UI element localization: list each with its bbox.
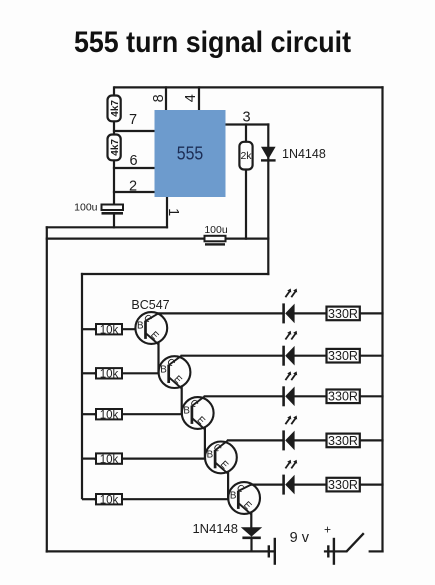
wire R13 to positive rail (359, 484, 384, 486)
wire Q4 collector to LED4 (227, 439, 285, 441)
svg-text:1: 1 (165, 208, 181, 216)
svg-text:100u: 100u (204, 224, 228, 236)
wire base-feed inner rail (81, 273, 83, 499)
resistor R12 330R (327, 434, 360, 448)
LED D3 (284, 289, 298, 324)
wire switch to positive rail (369, 550, 384, 552)
svg-text:7: 7 (129, 112, 137, 128)
svg-text:3: 3 (242, 109, 250, 125)
svg-text:100u: 100u (74, 202, 98, 214)
battery B1 9v cell 2 (324, 538, 335, 565)
wire left ground rail (46, 226, 48, 552)
battery B1 9v cell 1 (269, 538, 275, 565)
wire LED5 to R13 (294, 484, 327, 486)
transistor Q1 BC547 (135, 312, 167, 344)
LED D4 (284, 331, 298, 366)
diode D1 1N4148 (261, 147, 276, 161)
wire pin1 to ground (166, 196, 168, 228)
svg-text:330R: 330R (328, 307, 358, 321)
svg-text:1N4148: 1N4148 (192, 521, 238, 536)
resistor R13 330R (327, 478, 360, 492)
capacitor C2 100u (204, 224, 228, 246)
transistor Q3 BC547 (182, 396, 214, 429)
svg-text:330R: 330R (328, 434, 358, 448)
wire C2 bus left segment (46, 238, 205, 240)
diode D2 1N4148 (241, 527, 262, 552)
wire Q4 emitter to Q5 base (227, 472, 229, 499)
wire Q3 collector to LED3 (204, 395, 285, 397)
svg-text:4k7: 4k7 (110, 139, 121, 156)
resistor R1 4k7 (108, 96, 121, 122)
svg-text:330R: 330R (328, 349, 358, 363)
resistor R10 330R (327, 349, 360, 363)
svg-text:2: 2 (129, 179, 137, 195)
svg-text:555 turn signal circuit: 555 turn signal circuit (74, 26, 351, 59)
wire battery to switch (334, 550, 347, 552)
resistor R2 4k7 (108, 135, 121, 161)
svg-text:2k: 2k (240, 150, 252, 162)
wire top VCC rail (114, 86, 384, 88)
svg-text:6: 6 (129, 153, 137, 169)
wire R12 to positive rail (359, 439, 384, 441)
wire ground bus (pin1/C1) (46, 226, 168, 228)
svg-text:555: 555 (177, 144, 204, 164)
svg-text:BC547: BC547 (131, 298, 169, 312)
svg-text:330R: 330R (328, 390, 358, 404)
wire right positive rail (381, 86, 383, 552)
wire R10 to positive rail (359, 355, 384, 357)
resistor R4 10k (82, 324, 136, 336)
wire bottom negative rail to battery (46, 550, 275, 552)
wire pin3 output (225, 123, 270, 125)
svg-text:4: 4 (183, 94, 199, 102)
wire pin6 to chain (113, 167, 156, 169)
svg-text:8: 8 (151, 94, 167, 102)
resistor R3 2k (239, 142, 252, 170)
wire C2 bus right segment (226, 238, 270, 240)
wire 2k branch vertical (245, 123, 247, 239)
wire LED1 to R9 (294, 312, 327, 314)
wire R9 to positive rail (359, 312, 384, 314)
transistor Q5 BC547 (228, 482, 260, 514)
wire Q5 collector to LED5 (250, 484, 285, 486)
wire R11 to positive rail (359, 395, 384, 397)
wire Q2 emitter to Q3 base (181, 387, 183, 415)
resistor R6 10k (82, 409, 183, 421)
resistor R9 330R (327, 307, 360, 321)
switch S1 lever (346, 533, 364, 552)
LED D6 (284, 416, 298, 451)
wire D1 cathode branch vertical (267, 123, 269, 275)
svg-text:10k: 10k (100, 324, 119, 336)
wire left timing chain (R1/R2/C1 column) (113, 86, 115, 228)
wire base-feed bus horizontal (81, 273, 270, 275)
resistor R5 10k (82, 368, 160, 380)
wire Q3 emitter to Q4 base (204, 427, 206, 458)
capacitor C1 100u (74, 202, 123, 215)
resistor R11 330R (327, 390, 360, 404)
wire Q1 collector to LED1 (157, 312, 284, 314)
svg-text:10k: 10k (100, 409, 119, 421)
wire LED4 to R12 (294, 439, 327, 441)
wire pin4 to top rail (198, 86, 200, 111)
resistor R8 10k (82, 494, 229, 506)
svg-text:10k: 10k (100, 494, 119, 506)
svg-text:+: + (324, 523, 331, 537)
wire Q5 emitter to D2 (250, 512, 252, 528)
svg-text:330R: 330R (328, 478, 358, 492)
transistor Q4 BC547 (205, 440, 237, 473)
svg-text:10k: 10k (100, 454, 119, 466)
wire pin7 to chain (113, 130, 156, 132)
LED D7 (284, 460, 298, 495)
svg-text:10k: 10k (100, 369, 119, 381)
wire Q1 emitter to Q2 base (157, 342, 159, 373)
wire LED3 to R11 (294, 395, 327, 397)
wire LED2 to R10 (294, 355, 327, 357)
svg-text:1N4148: 1N4148 (282, 147, 326, 161)
wire pin2 to chain (113, 191, 156, 193)
wire pin8 to top rail (165, 86, 167, 111)
op-amp/timer IC U1 555 body (155, 110, 226, 197)
wire Q2 collector to LED2 (181, 355, 285, 357)
resistor R7 10k (82, 453, 206, 465)
LED D5 (284, 371, 298, 406)
svg-text:4k7: 4k7 (110, 100, 121, 117)
svg-text:9 v: 9 v (290, 530, 310, 546)
transistor Q2 BC547 (159, 356, 191, 389)
